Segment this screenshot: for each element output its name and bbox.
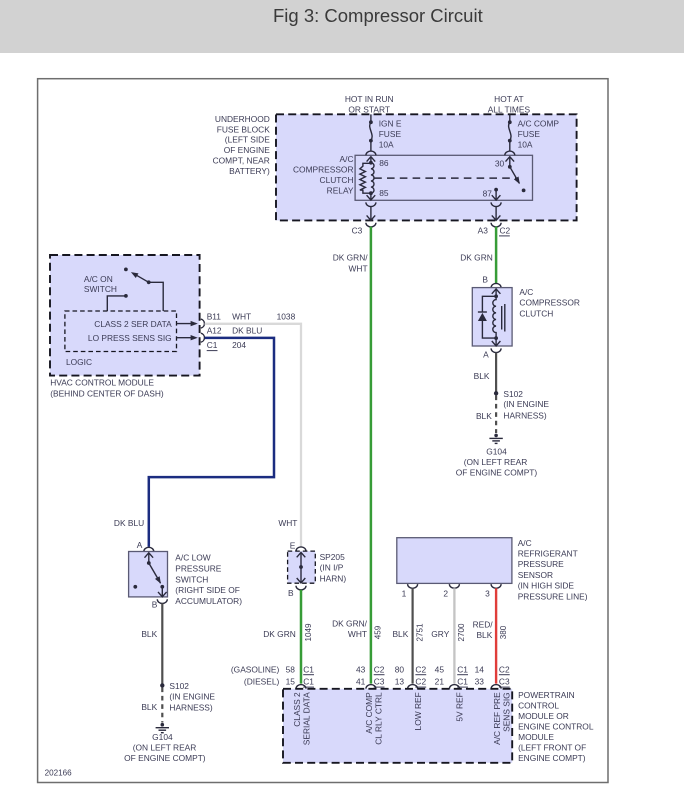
wire: hot feed into IGN E fuse — [370, 114, 372, 122]
connector label C2 — [499, 226, 511, 236]
label: G104 (ON LEFT REAR OF ENGINE COMPT) left — [124, 732, 206, 763]
diode D1 (flyback) — [478, 296, 496, 338]
PCM input label: LOW REF — [413, 692, 423, 730]
svg-text:ENGINE CONTROL: ENGINE CONTROL — [518, 721, 594, 731]
svg-text:A/C LOW: A/C LOW — [175, 553, 210, 563]
svg-text:BLK: BLK — [476, 630, 492, 640]
svg-text:1038: 1038 — [277, 312, 296, 322]
svg-text:C2: C2 — [499, 664, 510, 674]
svg-text:BLK: BLK — [476, 411, 492, 421]
pin 30 connector — [505, 151, 515, 169]
svg-text:FUSE BLOCK: FUSE BLOCK — [217, 124, 270, 134]
PCM input label: A/C REF PRE — [492, 692, 502, 745]
connector entry at PCM x=412.6 — [408, 685, 418, 689]
signal: CLASS 2 SER DATA output — [94, 319, 204, 329]
svg-text:OF ENGINE: OF ENGINE — [224, 145, 270, 155]
svg-text:CLASS 2 SER DATA: CLASS 2 SER DATA — [94, 319, 172, 329]
pin A connector of pressure switch — [137, 540, 154, 552]
wire: DK GRN SP205 to PCM class 2 serial data — [300, 590, 303, 684]
label: BLK — [474, 371, 490, 381]
svg-text:45: 45 — [435, 664, 445, 674]
connector row: diesel — [244, 677, 510, 687]
svg-text:C1: C1 — [457, 664, 468, 674]
svg-text:WHT: WHT — [349, 263, 368, 273]
svg-text:RELAY: RELAY — [327, 186, 354, 196]
svg-text:SP205: SP205 — [320, 552, 345, 562]
svg-text:WHT: WHT — [232, 312, 251, 322]
svg-text:58: 58 — [286, 664, 296, 674]
svg-text:IGN E: IGN E — [379, 119, 402, 129]
PCM input label: 5V REF — [454, 692, 464, 721]
svg-text:15: 15 — [286, 677, 296, 687]
svg-text:REFRIGERANT: REFRIGERANT — [518, 549, 578, 559]
PCM input label: CLASS 2 — [292, 692, 302, 727]
svg-text:DK GRN/: DK GRN/ — [333, 253, 369, 263]
svg-text:BLK: BLK — [474, 371, 490, 381]
circuit number 2751 — [415, 623, 424, 642]
splice block SP205 (dashed box) — [288, 551, 316, 583]
fuse block: underhood fuse block (dashed box) — [276, 114, 577, 220]
svg-text:(ON LEFT REAR: (ON LEFT REAR — [464, 457, 528, 467]
svg-text:COMPRESSOR: COMPRESSOR — [293, 165, 354, 175]
label: BLK (dashed segment) left — [141, 702, 157, 712]
svg-text:1049: 1049 — [304, 623, 313, 642]
svg-text:(IN HIGH SIDE: (IN HIGH SIDE — [518, 581, 575, 591]
wire: hot feed into A/C COMP fuse — [509, 114, 511, 122]
svg-text:ENGINE COMPT): ENGINE COMPT) — [518, 753, 586, 763]
label: IGN E FUSE 10A — [379, 119, 402, 150]
pressure switch internals — [133, 553, 166, 597]
relay switch arm — [510, 167, 526, 193]
junction: coil bottom — [369, 191, 373, 200]
label: A/C LOW PRESSURE SWITCH (RIGHT SIDE OF ACCUMULATOR) — [175, 553, 242, 607]
wire: A/C COMP fuse to relay pin 30 — [509, 141, 511, 151]
svg-text:A: A — [483, 350, 489, 360]
svg-text:CLUTCH: CLUTCH — [519, 308, 553, 318]
circuit number 1049 — [304, 623, 313, 642]
svg-text:C2: C2 — [374, 664, 385, 674]
svg-text:UNDERHOOD: UNDERHOOD — [215, 114, 270, 124]
svg-text:OR START: OR START — [348, 105, 390, 115]
pin B connector of pressure switch — [152, 599, 167, 609]
connector entry at PCM x=301 — [296, 685, 306, 689]
label: LOGIC — [66, 357, 92, 367]
svg-text:2700: 2700 — [457, 623, 466, 642]
svg-text:87: 87 — [483, 189, 493, 199]
title: Fig 3 Compressor Circuit — [273, 5, 483, 27]
svg-text:459: 459 — [374, 625, 383, 639]
wire: BLK sensor low ref to PCM — [412, 588, 414, 683]
svg-text:DK GRN/: DK GRN/ — [332, 618, 368, 628]
label: DK GRN — [263, 629, 296, 639]
label: A/C REFRIGERANT PRESSURE SENSOR (IN HIGH SIDE PRESSURE LINE) — [518, 538, 588, 602]
ground G104 (left) — [156, 723, 169, 733]
wire: GRY sensor 5v ref to PCM — [453, 588, 455, 683]
label: A/C ON SWITCH — [84, 274, 117, 294]
clutch exit arrow — [492, 336, 501, 346]
label: BLK (dashed segment) — [476, 411, 492, 421]
svg-text:1: 1 — [402, 589, 407, 599]
svg-text:PRESSURE: PRESSURE — [518, 559, 564, 569]
svg-text:B: B — [288, 588, 294, 598]
svg-text:43: 43 — [356, 664, 366, 674]
label: A/C COMPRESSOR CLUTCH — [519, 287, 580, 318]
svg-text:30: 30 — [495, 159, 505, 169]
svg-text:LOGIC: LOGIC — [66, 357, 92, 367]
svg-text:2751: 2751 — [415, 623, 424, 642]
label: SP205 (IN I/P HARN) — [320, 552, 347, 583]
sensor: A/C refrigerant pressure sensor box — [397, 538, 512, 584]
switch: A/C ON switch — [107, 268, 163, 312]
svg-text:2: 2 — [443, 589, 448, 599]
svg-text:C3: C3 — [374, 677, 385, 687]
logic block (inner dashed box) — [65, 311, 177, 352]
svg-text:GRY: GRY — [431, 629, 449, 639]
svg-text:5V REF: 5V REF — [454, 692, 464, 721]
svg-text:A/C: A/C — [519, 287, 533, 297]
svg-text:(BEHIND CENTER OF DASH): (BEHIND CENTER OF DASH) — [50, 389, 164, 399]
wire: DK GRN/WHT from relay pin 85 (C3) down to PCM — [370, 227, 373, 684]
svg-text:C3: C3 — [352, 226, 363, 236]
svg-text:LO PRESS SENS SIG: LO PRESS SENS SIG — [88, 333, 172, 343]
svg-text:HARN): HARN) — [320, 573, 347, 583]
pin 87 stub — [492, 188, 501, 200]
svg-text:G104: G104 — [152, 732, 173, 742]
svg-text:WHT: WHT — [348, 629, 367, 639]
switch: A/C low pressure switch box — [129, 552, 168, 597]
svg-text:(IN ENGINE: (IN ENGINE — [503, 399, 549, 409]
connector entry at PCM x=454.4 — [449, 685, 459, 689]
svg-text:B: B — [482, 274, 488, 284]
label: DK BLU — [114, 518, 144, 528]
relay coil (scalloped winding on pin line) — [371, 163, 374, 194]
svg-text:(DIESEL): (DIESEL) — [244, 677, 280, 687]
signal: LO PRESS SENS SIG output — [88, 333, 205, 343]
PCM input label: SENS SIG — [502, 692, 512, 732]
label: S102 (IN ENGINE HARNESS) — [503, 389, 549, 421]
wire: IGN E fuse to relay pin 86 — [370, 141, 372, 151]
svg-text:MODULE OR: MODULE OR — [518, 711, 569, 721]
svg-text:C1: C1 — [303, 664, 314, 674]
svg-text:COMPRESSOR: COMPRESSOR — [519, 298, 580, 308]
splice S102 (right) — [494, 391, 498, 395]
label: WHT — [278, 518, 297, 528]
circuit number 459 — [374, 625, 383, 639]
pin 30 label — [495, 159, 505, 169]
svg-text:MODULE: MODULE — [518, 732, 554, 742]
svg-text:A/C COMP: A/C COMP — [518, 119, 560, 129]
svg-text:DK GRN: DK GRN — [460, 253, 493, 263]
clutch entry arrow — [492, 289, 501, 298]
connector exit at relay bottom x=370.9 — [366, 202, 376, 227]
svg-text:SENS SIG: SENS SIG — [502, 692, 512, 732]
svg-text:HOT IN RUN: HOT IN RUN — [345, 94, 394, 104]
svg-text:10A: 10A — [379, 140, 394, 150]
label: HVAC CONTROL MODULE (BEHIND CENTER OF DASH) — [50, 377, 164, 398]
wire: BLK pressure switch to S102 — [161, 603, 163, 684]
svg-text:A/C COMP: A/C COMP — [364, 692, 374, 734]
svg-text:BATTERY): BATTERY) — [229, 166, 270, 176]
svg-text:POWERTRAIN: POWERTRAIN — [518, 690, 575, 700]
svg-text:LOW REF: LOW REF — [413, 692, 423, 730]
label: DK GRN — [460, 253, 493, 263]
label: G104 (ON LEFT REAR OF ENGINE COMPT) — [456, 447, 538, 478]
relay actuator dashed link — [374, 177, 516, 179]
svg-text:CLASS 2: CLASS 2 — [292, 692, 302, 727]
svg-text:(LEFT SIDE: (LEFT SIDE — [225, 135, 270, 145]
relay coil (resistor zigzag branch) — [360, 163, 371, 193]
svg-text:C1: C1 — [457, 677, 468, 687]
wire: BLK clutch to S102 — [495, 353, 497, 392]
svg-text:CONTROL: CONTROL — [518, 700, 559, 710]
svg-text:BLK: BLK — [141, 702, 157, 712]
svg-text:HOT AT: HOT AT — [494, 94, 523, 104]
connector entry at PCM x=370.9 — [366, 685, 376, 689]
pin 85 connector — [367, 195, 376, 200]
label: S102 (IN ENGINE HARNESS) left — [169, 681, 215, 713]
wire: DK BLU lo press sens sig to pressure switch — [149, 338, 274, 547]
svg-text:C1: C1 — [207, 340, 218, 350]
node: HOT AT ALL TIMES — [488, 94, 531, 115]
svg-text:204: 204 — [232, 340, 246, 350]
pin 87 label — [483, 189, 493, 199]
circuit number 380 — [499, 625, 508, 639]
svg-text:A3: A3 — [478, 226, 489, 236]
label: BLK — [141, 629, 157, 639]
svg-text:WHT: WHT — [278, 518, 297, 528]
connector C1 label + circuit 204 — [207, 340, 247, 350]
label: DK GRN/WHT (lower) — [332, 618, 368, 639]
svg-text:ALL TIMES: ALL TIMES — [488, 105, 531, 115]
svg-text:A12: A12 — [207, 325, 222, 335]
svg-text:SWITCH: SWITCH — [175, 574, 208, 584]
svg-text:C2: C2 — [415, 677, 426, 687]
svg-text:(LEFT FRONT OF: (LEFT FRONT OF — [518, 742, 586, 752]
svg-text:C2: C2 — [500, 226, 511, 236]
label: A/C COMP FUSE 10A — [518, 119, 560, 150]
module: HVAC control module (dashed box) — [50, 255, 200, 376]
svg-text:10A: 10A — [518, 140, 533, 150]
label: UNDERHOOD FUSE BLOCK — [213, 114, 271, 176]
svg-text:B: B — [152, 600, 158, 610]
svg-text:A/C: A/C — [340, 154, 354, 164]
svg-text:FUSE: FUSE — [518, 129, 541, 139]
PCM input label: CL RLY CTRL — [374, 692, 384, 745]
svg-text:FUSE: FUSE — [379, 129, 402, 139]
pin 1 connector of sensor — [402, 584, 418, 599]
svg-text:(IN ENGINE: (IN ENGINE — [169, 691, 215, 701]
label: A/C COMPRESSOR CLUTCH RELAY — [293, 154, 354, 195]
svg-text:SERIAL DATA: SERIAL DATA — [302, 692, 312, 745]
wire: WHT class 2 serial data to SP205 — [205, 324, 301, 547]
connector row: gasoline — [231, 664, 510, 674]
svg-text:HARNESS): HARNESS) — [169, 703, 212, 713]
pin 86 connector — [366, 151, 376, 165]
pin 3 connector of sensor — [485, 584, 501, 599]
svg-text:41: 41 — [356, 677, 366, 687]
pin B connector of SP205 — [288, 586, 306, 598]
label: BLK — [392, 629, 408, 639]
svg-text:A/C: A/C — [518, 538, 532, 548]
pin 86 label — [379, 158, 389, 168]
svg-text:SWITCH: SWITCH — [84, 284, 117, 294]
svg-text:(GASOLINE): (GASOLINE) — [231, 664, 280, 674]
module: powertrain control module (dashed box) — [283, 689, 512, 763]
svg-text:(ON LEFT REAR: (ON LEFT REAR — [133, 742, 197, 752]
label: RED/BLK — [473, 620, 494, 640]
wire: BLK dashed S102 to G104 — [495, 396, 497, 434]
svg-text:80: 80 — [395, 664, 405, 674]
svg-text:CL RLY CTRL: CL RLY CTRL — [374, 692, 384, 745]
svg-text:A/C ON: A/C ON — [84, 274, 113, 284]
label: DK GRN/WHT (upper) — [333, 253, 369, 274]
pin B connector of clutch — [482, 274, 501, 287]
circuit number 2700 — [457, 623, 466, 642]
ground G104 (right) — [489, 434, 502, 444]
svg-text:S102: S102 — [169, 681, 189, 691]
clutch plates — [502, 304, 505, 332]
connector label C3 — [352, 226, 363, 236]
svg-text:HVAC CONTROL MODULE: HVAC CONTROL MODULE — [50, 377, 154, 387]
svg-text:DK BLU: DK BLU — [232, 325, 262, 335]
svg-text:BLK: BLK — [141, 629, 157, 639]
pin A12 label + wire id — [207, 325, 263, 335]
svg-text:C2: C2 — [415, 664, 426, 674]
pin 2 connector of sensor — [443, 584, 459, 599]
svg-text:A/C REF PRE: A/C REF PRE — [492, 692, 502, 745]
pin A connector of clutch — [483, 348, 501, 359]
svg-text:SENSOR: SENSOR — [518, 570, 553, 580]
PCM input label: SERIAL DATA — [302, 692, 312, 745]
wire: BLK dashed to G104 (left) — [161, 688, 163, 723]
svg-text:B11: B11 — [207, 312, 222, 322]
wire: RED/BLK sensor signal to PCM — [495, 588, 497, 683]
connector exit at relay bottom x=496.1 — [491, 202, 501, 227]
svg-text:PRESSURE: PRESSURE — [175, 563, 221, 573]
pin E connector of SP205 — [290, 540, 306, 551]
svg-text:A: A — [137, 540, 143, 550]
clutch L1: A/C compressor clutch box — [472, 288, 512, 346]
svg-text:COMPT, NEAR: COMPT, NEAR — [213, 156, 270, 166]
connector entry at PCM x=496.1 — [491, 685, 501, 689]
wire: DK GRN from relay pin 87 (A3/C2) to compressor clutch — [495, 227, 498, 284]
pin B11 label + wire id — [207, 312, 296, 322]
svg-text:85: 85 — [379, 188, 389, 198]
svg-text:3: 3 — [485, 589, 490, 599]
SP205 internals (splice) — [297, 552, 306, 583]
svg-text:OF ENGINE COMPT): OF ENGINE COMPT) — [124, 753, 206, 763]
node: HOT IN RUN OR START — [345, 94, 394, 115]
svg-text:ACCUMULATOR): ACCUMULATOR) — [175, 596, 242, 606]
relay K1: A/C compressor clutch relay box — [355, 155, 532, 200]
svg-text:OF ENGINE COMPT): OF ENGINE COMPT) — [456, 467, 538, 477]
svg-text:13: 13 — [395, 677, 405, 687]
svg-text:21: 21 — [435, 677, 445, 687]
svg-text:14: 14 — [475, 664, 485, 674]
svg-text:CLUTCH: CLUTCH — [320, 175, 354, 185]
svg-text:380: 380 — [499, 625, 508, 639]
svg-text:202166: 202166 — [45, 769, 73, 778]
svg-text:33: 33 — [475, 677, 485, 687]
svg-text:G104: G104 — [486, 447, 507, 457]
splice S102 (left) — [160, 683, 164, 687]
svg-text:RED/: RED/ — [473, 620, 494, 630]
svg-text:(RIGHT SIDE OF: (RIGHT SIDE OF — [175, 585, 240, 595]
PCM input label: A/C COMP — [364, 692, 374, 734]
svg-text:DK BLU: DK BLU — [114, 518, 144, 528]
svg-text:(IN I/P: (IN I/P — [320, 563, 344, 573]
label: GRY — [431, 629, 449, 639]
svg-text:E: E — [290, 540, 296, 550]
pin 85 label — [379, 188, 389, 198]
fuse F1: IGN E FUSE 10A — [369, 120, 373, 142]
clutch coil winding — [493, 296, 496, 338]
svg-text:S102: S102 — [503, 389, 523, 399]
svg-text:BLK: BLK — [392, 629, 408, 639]
fuse F2: A/C COMP FUSE 10A — [508, 120, 512, 142]
svg-text:HARNESS): HARNESS) — [503, 410, 546, 420]
svg-text:DK GRN: DK GRN — [263, 629, 296, 639]
svg-text:C3: C3 — [499, 677, 510, 687]
figure number 202166 — [45, 769, 73, 778]
svg-text:PRESSURE LINE): PRESSURE LINE) — [518, 591, 588, 601]
svg-text:86: 86 — [379, 158, 389, 168]
label: POWERTRAIN CONTROL MODULE OR ENGINE CONTROL MODULE (LEFT FRONT OF ENGINE COMPT) — [518, 690, 594, 763]
connector label A3 — [478, 226, 489, 236]
